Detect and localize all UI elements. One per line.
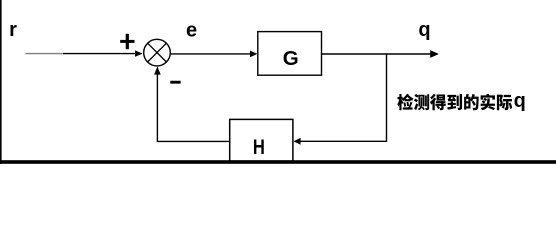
- svg-text:q: q: [514, 90, 526, 112]
- svg-text:e: e: [186, 19, 197, 41]
- svg-text:G: G: [283, 47, 299, 70]
- svg-text:r: r: [9, 19, 17, 41]
- svg-text:q: q: [418, 19, 430, 41]
- svg-text:H: H: [253, 135, 265, 159]
